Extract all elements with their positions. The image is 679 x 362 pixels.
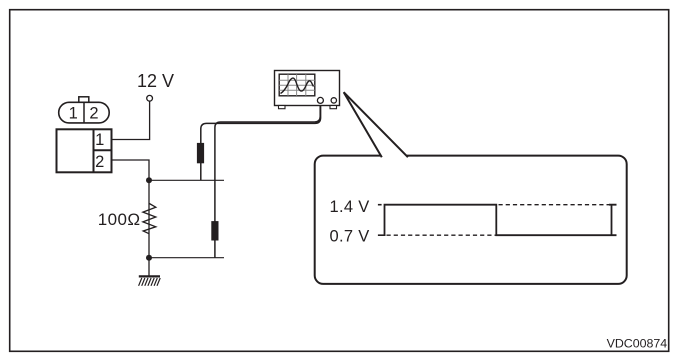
resistor 100ohm bbox=[143, 204, 156, 234]
svg-text:0.7 V: 0.7 V bbox=[330, 228, 370, 246]
tick 1.4V bbox=[378, 204, 382, 206]
oscilloscope knob left bbox=[317, 97, 323, 103]
oscilloscope body bbox=[275, 71, 340, 106]
wire node A to probe bbox=[149, 179, 224, 181]
node B dot bbox=[146, 255, 152, 261]
connector body divider vertical bbox=[93, 129, 95, 172]
terminal 12V bbox=[147, 95, 153, 101]
wire probe lead 1 bbox=[201, 103, 321, 180]
wire pin2 down to ground bbox=[112, 160, 150, 276]
waveform square bbox=[385, 205, 617, 236]
oscilloscope knob right bbox=[331, 98, 336, 103]
callout balloon bbox=[315, 156, 627, 284]
oscilloscope screen bbox=[279, 74, 315, 96]
connector face oval bbox=[59, 102, 109, 123]
callout tail bbox=[344, 92, 408, 157]
connector tab bbox=[79, 97, 89, 103]
wire 12V to pin1 bbox=[112, 102, 150, 140]
wire probe lead 2 bbox=[215, 103, 320, 257]
connector face divider bbox=[83, 102, 85, 123]
probe sleeve 2 bbox=[211, 221, 218, 240]
svg-text:100Ω: 100Ω bbox=[98, 210, 141, 229]
connector body box bbox=[57, 129, 112, 172]
connector body divider horizontal bbox=[94, 149, 112, 151]
waveform dashed 0.7V bbox=[387, 234, 497, 236]
tick 0.7V bbox=[378, 234, 386, 236]
svg-text:1: 1 bbox=[95, 131, 104, 149]
oscilloscope trace bbox=[281, 78, 314, 93]
oscilloscope foot right bbox=[330, 106, 337, 109]
probe sleeve 1 bbox=[197, 143, 204, 163]
oscilloscope foot left bbox=[279, 106, 286, 109]
svg-text:2: 2 bbox=[89, 105, 98, 123]
svg-text:12 V: 12 V bbox=[137, 71, 174, 91]
node A dot bbox=[146, 177, 152, 183]
wire node B to probe bbox=[149, 257, 224, 259]
ground bbox=[139, 276, 161, 285]
waveform dashed 1.4V bbox=[499, 204, 610, 206]
svg-text:1.4 V: 1.4 V bbox=[330, 198, 370, 216]
svg-text:2: 2 bbox=[95, 153, 104, 171]
svg-text:VDC00874: VDC00874 bbox=[607, 336, 668, 350]
svg-text:1: 1 bbox=[69, 105, 78, 123]
